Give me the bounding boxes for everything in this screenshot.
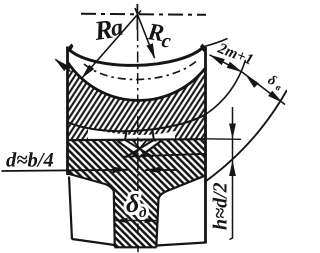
web roof right (159, 176, 206, 199)
screw thread cross lines (126, 141, 153, 158)
tooth root arc (68, 62, 206, 100)
screw countersink V (119, 142, 160, 157)
web left edge (114, 191, 115, 247)
svg-text:δ: δ (126, 189, 139, 218)
rim hatched section (68, 62, 206, 140)
throat surface arc (outer) (70, 47, 205, 66)
pitch circle arc (dash-dot) (84, 62, 196, 80)
Rc radius line (135, 8, 155, 58)
web bottom (115, 246, 157, 248)
throat surface arc right extension (204, 39, 228, 47)
joint line (68, 139, 206, 140)
right recess bottom (157, 243, 206, 246)
horizontal dashed axis (81, 14, 206, 15)
web thickness dimension (116, 220, 157, 222)
rim seat arc (68, 115, 206, 132)
svg-text:д: д (139, 205, 147, 221)
centre line vertical (136, 4, 138, 30)
right corner horn (200, 44, 207, 53)
wheel centre hatched section (68, 139, 206, 247)
rim right edge (204, 47, 207, 244)
rim left edge (66, 47, 69, 176)
svg-text:h≈d/2: h≈d/2 (210, 182, 232, 230)
joint extension line (206, 138, 242, 141)
svg-text:d≈b/4: d≈b/4 (6, 150, 54, 172)
corner leader arrow (56, 60, 71, 72)
web right edge (156, 199, 158, 248)
left recess left edge (69, 177, 72, 240)
screw diameter dimension line (2, 170, 129, 171)
h dimension line (230, 107, 233, 240)
rim thickness dimension line (210, 55, 286, 105)
wheel rim bottom arc (206, 90, 287, 181)
left recess bottom (72, 239, 115, 245)
Ra radius line (82, 11, 141, 79)
web roof left (68, 174, 114, 192)
screw hole bottom line (122, 154, 206, 157)
left corner horn (67, 44, 74, 53)
rim seat arc extension (206, 60, 246, 115)
white gap under seat arc (88, 129, 175, 140)
